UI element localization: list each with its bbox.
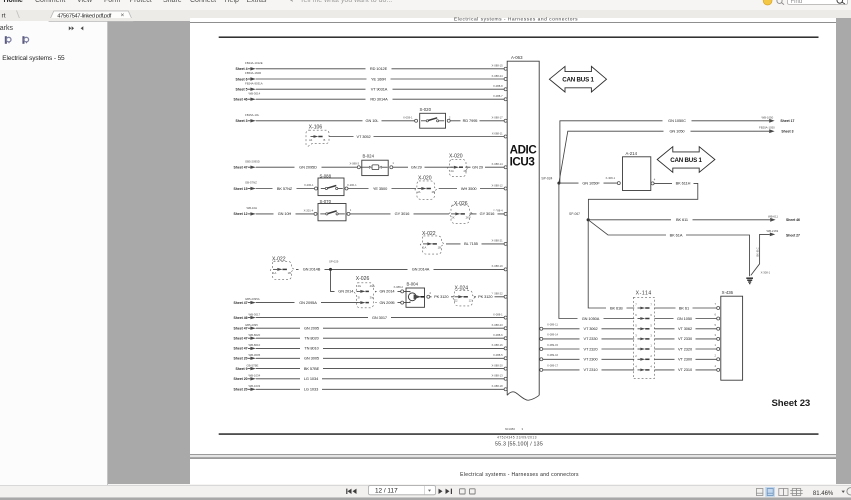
wire BK 61C to Sheet 27 bbox=[751, 229, 800, 275]
svg-text:RD 1012E: RD 1012E bbox=[370, 66, 388, 71]
svg-text:WB-3017: WB-3017 bbox=[249, 312, 261, 316]
svg-text:6: 6 bbox=[650, 313, 652, 317]
wire GN 3017 to X-088-1 bbox=[256, 314, 504, 320]
svg-text:Sheet 20: Sheet 20 bbox=[234, 388, 248, 392]
wire GN 2014B bbox=[296, 266, 330, 272]
rotate icons bbox=[460, 489, 476, 494]
wire GN 1050 to X-436 pin 6 bbox=[654, 315, 716, 321]
wire LG 1034 to X-088-13 bbox=[256, 376, 504, 382]
svg-text:3Ia: 3Ia bbox=[370, 295, 374, 299]
connector X-436 bbox=[715, 290, 743, 380]
svg-text:81.46%: 81.46% bbox=[813, 491, 834, 497]
svg-text:5: 5 bbox=[715, 323, 717, 327]
svg-text:Electrical systems - Harnesses: Electrical systems - Harnesses and conne… bbox=[454, 17, 578, 23]
svg-text:5: 5 bbox=[650, 323, 652, 327]
svg-text:5: 5 bbox=[635, 323, 637, 327]
svg-text:1: 1 bbox=[350, 208, 352, 212]
svg-text:4Ga: 4Ga bbox=[370, 284, 376, 288]
svg-text:GB-57BE: GB-57BE bbox=[247, 363, 259, 367]
svg-text:Sheet 15: Sheet 15 bbox=[234, 187, 248, 191]
svg-text:CAN BUS 1: CAN BUS 1 bbox=[562, 77, 594, 84]
svg-text:RD 3014A: RD 3014A bbox=[370, 97, 388, 102]
wire WH 3500 to X-088-12 bbox=[439, 185, 504, 191]
wire GN 2095A bbox=[256, 299, 358, 305]
wire BK 61A bbox=[588, 220, 749, 276]
svg-text:X-088-12: X-088-12 bbox=[492, 183, 504, 187]
svg-text:12 / 117: 12 / 117 bbox=[375, 488, 398, 495]
wire GY 3016 bbox=[350, 211, 449, 217]
svg-text:X-059-1: X-059-1 bbox=[403, 115, 413, 119]
svg-text:WB-8010: WB-8010 bbox=[249, 343, 261, 347]
svg-text:VT 2320: VT 2320 bbox=[583, 346, 598, 351]
wire VT 3052 to X-088-11 bbox=[329, 133, 504, 139]
svg-text:Sheet 27: Sheet 27 bbox=[786, 233, 800, 237]
svg-text:WH 3500: WH 3500 bbox=[461, 186, 478, 191]
wire PK 3120 bbox=[430, 294, 454, 300]
wire GY 3016 to X-088-4 bbox=[470, 211, 505, 217]
svg-text:4: 4 bbox=[650, 365, 652, 369]
svg-text:1B: 1B bbox=[438, 246, 441, 250]
svg-text:VT 3062: VT 3062 bbox=[678, 326, 692, 331]
svg-text:4G: 4G bbox=[358, 284, 362, 288]
svg-text:BK 61B: BK 61B bbox=[610, 305, 623, 310]
wire LG 1033 to X-088-18 bbox=[256, 386, 504, 392]
svg-text:Sheet 46: Sheet 46 bbox=[786, 218, 800, 222]
svg-text:WB-10H: WB-10H bbox=[247, 206, 258, 210]
wire VT 2330 to X-114 bbox=[543, 336, 634, 342]
wire BK 57NZ bbox=[256, 183, 314, 191]
sheet-in arrow Sheet 47 / GB5-2095 bbox=[234, 323, 259, 331]
svg-text:VT 2330: VT 2330 bbox=[678, 336, 693, 341]
layout icons bbox=[756, 489, 763, 496]
svg-text:X-088-3: X-088-3 bbox=[349, 162, 359, 166]
svg-text:A4: A4 bbox=[309, 138, 313, 142]
bookmarks panel bbox=[0, 18, 108, 485]
wire GN 2014 (left of X-026) bbox=[335, 288, 358, 294]
wire BK 611 to Sheet 46 bbox=[588, 214, 800, 222]
svg-text:1A: 1A bbox=[423, 246, 426, 250]
svg-text:GN 1050: GN 1050 bbox=[677, 316, 693, 321]
svg-text:X-088-19: X-088-19 bbox=[492, 264, 504, 268]
sheet-in arrow Sheet 47 / GB5-2095A bbox=[234, 297, 260, 305]
svg-text:3: 3 bbox=[522, 427, 524, 431]
wire BK 611H from A-214 down to SP-067 bbox=[588, 180, 697, 218]
svg-text:X-088-24: X-088-24 bbox=[492, 74, 504, 78]
wire VT 2330 to X-436 pin 3 bbox=[654, 336, 716, 342]
wire VT 2300 to X-114 bbox=[543, 356, 634, 362]
svg-text:4: 4 bbox=[429, 291, 431, 295]
svg-text:47524345 23/09/2013: 47524345 23/09/2013 bbox=[497, 436, 537, 440]
svg-text:X-088-13: X-088-13 bbox=[492, 374, 504, 378]
svg-text:GN 1050: GN 1050 bbox=[669, 129, 685, 134]
wire GN 2095D bbox=[256, 162, 360, 170]
svg-text:Sheet 20: Sheet 20 bbox=[234, 357, 248, 361]
svg-text:GN 29: GN 29 bbox=[411, 165, 422, 170]
svg-text:WB-8020: WB-8020 bbox=[249, 333, 261, 337]
svg-text:1: 1 bbox=[650, 344, 652, 348]
svg-text:Sheet 17: Sheet 17 bbox=[780, 119, 794, 123]
svg-text:PK 3120: PK 3120 bbox=[434, 294, 449, 299]
svg-text:WB-1050: WB-1050 bbox=[762, 115, 774, 119]
svg-text:VT 2330: VT 2330 bbox=[583, 336, 598, 341]
svg-text:S-020: S-020 bbox=[420, 107, 432, 112]
svg-text:X-026: X-026 bbox=[356, 276, 370, 282]
svg-text:Electrical systems - Harnesses: Electrical systems - Harnesses and conne… bbox=[460, 472, 579, 478]
svg-text:4: 4 bbox=[715, 364, 717, 368]
svg-text:X-436: X-436 bbox=[722, 290, 734, 295]
connector X-020 (GN 29) bbox=[448, 153, 486, 176]
connector X-106 bbox=[306, 125, 329, 147]
svg-text:GY 3016: GY 3016 bbox=[480, 211, 495, 216]
switch S-088 bbox=[315, 174, 358, 196]
svg-text:2: 2 bbox=[635, 354, 637, 358]
svg-text:X-089-16: X-089-16 bbox=[547, 353, 559, 357]
svg-text:3: 3 bbox=[650, 334, 652, 338]
connector X-114 bbox=[633, 291, 654, 379]
svg-text:2KV: 2KV bbox=[466, 216, 471, 220]
svg-text:X-089-14: X-089-14 bbox=[547, 333, 559, 337]
svg-text:B: B bbox=[324, 138, 326, 142]
svg-text:X-088-18: X-088-18 bbox=[492, 384, 504, 388]
svg-text:Sheet 20: Sheet 20 bbox=[234, 377, 248, 381]
svg-text:GN 2014: GN 2014 bbox=[338, 289, 354, 294]
svg-text:WB-3005: WB-3005 bbox=[249, 353, 261, 357]
active tab bbox=[49, 11, 133, 21]
svg-text:BK 611H: BK 611H bbox=[676, 181, 691, 186]
svg-text:2: 2 bbox=[449, 115, 451, 119]
svg-text:12: 12 bbox=[469, 298, 472, 302]
svg-text:Sheet 47: Sheet 47 bbox=[234, 327, 248, 331]
svg-text:X-022: X-022 bbox=[272, 257, 286, 263]
svg-text:GN 3005: GN 3005 bbox=[304, 356, 319, 361]
svg-text:SP-024: SP-024 bbox=[541, 177, 552, 181]
svg-text:X-022: X-022 bbox=[422, 231, 436, 237]
svg-text:Sheet 12: Sheet 12 bbox=[234, 212, 248, 216]
svg-text:B-024: B-024 bbox=[363, 154, 375, 159]
svg-text:Sheet 46: Sheet 46 bbox=[234, 98, 248, 102]
svg-text:SP-067: SP-067 bbox=[569, 212, 580, 216]
wire GN 10L bbox=[256, 115, 415, 123]
svg-text:7: 7 bbox=[635, 303, 637, 307]
svg-text:601080: 601080 bbox=[505, 427, 515, 431]
wire BK 61B (SP-067 down to X-114) bbox=[588, 220, 634, 311]
wire GN 1050F to A-214 bbox=[559, 176, 617, 186]
svg-text:TN 8010: TN 8010 bbox=[304, 346, 319, 351]
svg-text:BK 61C: BK 61C bbox=[755, 247, 759, 256]
X-088 pin labels bbox=[492, 64, 504, 389]
wire GN 2014 to B-004 pin 1 bbox=[376, 285, 404, 294]
svg-text:X-114: X-114 bbox=[636, 291, 652, 297]
svg-text:4: 4 bbox=[635, 365, 637, 369]
svg-text:X-089-11: X-089-11 bbox=[547, 323, 558, 327]
switch S-070 bbox=[314, 199, 352, 221]
svg-text:X-088-23: X-088-23 bbox=[492, 323, 504, 327]
svg-text:GN 1050F: GN 1050F bbox=[582, 180, 600, 185]
wire VT 2310 to X-436 pin 4 bbox=[654, 367, 716, 373]
svg-text:BK 57NZ: BK 57NZ bbox=[277, 186, 293, 191]
sheet-in arrow Sheet 20 / WB-1034 bbox=[234, 374, 261, 382]
svg-text:X-088-11: X-088-11 bbox=[492, 131, 503, 135]
svg-text:B-004: B-004 bbox=[407, 282, 419, 287]
wire TN 8020 to X-088-6 bbox=[256, 335, 504, 341]
svg-text:A-063: A-063 bbox=[511, 55, 523, 60]
svg-text:GN 1050C: GN 1050C bbox=[668, 118, 686, 123]
sheet-in arrow Sheet 4 / FB24A-1012E bbox=[235, 61, 262, 71]
svg-text:Sheet 47: Sheet 47 bbox=[234, 347, 248, 351]
sheet-in arrow Sheet 47 / GB5-2095D bbox=[234, 159, 260, 169]
svg-text:Electrical systems - 55: Electrical systems - 55 bbox=[2, 55, 65, 62]
svg-text:X-088-7: X-088-7 bbox=[493, 94, 503, 98]
top rule bbox=[219, 36, 819, 38]
svg-text:GB5-2095: GB5-2095 bbox=[245, 323, 258, 327]
svg-text:2A: 2A bbox=[451, 169, 454, 173]
wire GN 2014A to X-088-19 bbox=[332, 266, 504, 272]
svg-text:SP-029: SP-029 bbox=[329, 259, 339, 263]
svg-text:PK 3120: PK 3120 bbox=[478, 294, 493, 299]
wire VT 2320 to X-436 pin 1 bbox=[654, 346, 716, 352]
wire VT 2300 to X-436 pin 2 bbox=[654, 356, 716, 362]
bookmark panel icons bbox=[5, 36, 29, 44]
svg-text:2K: 2K bbox=[451, 216, 454, 220]
wire BL 7155 to X-088-21 bbox=[446, 241, 504, 247]
wire YE 3500 bbox=[348, 185, 416, 191]
svg-text:3: 3 bbox=[715, 333, 717, 337]
connector X-022 (GN 2014B) bbox=[270, 257, 294, 280]
svg-text:2A: 2A bbox=[417, 190, 420, 194]
svg-text:X-308-1: X-308-1 bbox=[606, 176, 616, 180]
svg-text:X-089-17: X-089-17 bbox=[547, 364, 559, 368]
svg-text:Sheet 46: Sheet 46 bbox=[234, 316, 248, 320]
svg-text:GN 2095D: GN 2095D bbox=[299, 165, 317, 170]
svg-text:2B: 2B bbox=[432, 190, 435, 194]
wire SP-029 drop to GN 2014 bbox=[331, 269, 337, 291]
splice SP-024 bbox=[541, 177, 560, 185]
svg-text:GN 3017: GN 3017 bbox=[372, 315, 387, 320]
svg-text:VT 2300: VT 2300 bbox=[678, 357, 693, 362]
svg-text:X-088-15: X-088-15 bbox=[492, 64, 504, 68]
svg-text:X-106: X-106 bbox=[309, 125, 323, 131]
component B-004 bbox=[401, 282, 432, 308]
sheet-in arrow Sheet 20 / WB-1033 bbox=[234, 384, 261, 392]
svg-text:3: 3 bbox=[635, 334, 637, 338]
svg-text:VT 9031A: VT 9031A bbox=[371, 87, 388, 92]
svg-text:GN 2014A: GN 2014A bbox=[412, 267, 430, 272]
svg-text:X-088-21: X-088-21 bbox=[492, 239, 504, 243]
bottom rule bbox=[219, 433, 819, 435]
svg-text:Sheet 23: Sheet 23 bbox=[772, 398, 811, 409]
svg-text:BK 57BE: BK 57BE bbox=[304, 366, 320, 371]
wire RD 1012E to X-088-15 bbox=[256, 66, 504, 72]
svg-text:GN 10L: GN 10L bbox=[366, 118, 380, 123]
svg-text:X-088-16: X-088-16 bbox=[492, 343, 504, 347]
svg-text:GN 2095: GN 2095 bbox=[304, 326, 319, 331]
component B-024 bbox=[357, 154, 394, 176]
svg-text:WB-2169: WB-2169 bbox=[767, 229, 779, 233]
page number box bbox=[369, 486, 436, 495]
find box bbox=[788, 0, 848, 4]
wire VT 3062 to X-436 pin 5 bbox=[654, 326, 716, 332]
wire GN 29 bbox=[393, 164, 504, 170]
svg-text:Bookmarks: Bookmarks bbox=[0, 25, 14, 32]
svg-text:X-308-1: X-308-1 bbox=[761, 270, 771, 274]
svg-text:55.3 [55.100] / 135: 55.3 [55.100] / 135 bbox=[495, 442, 543, 448]
svg-text:X-201-4: X-201-4 bbox=[304, 208, 314, 212]
svg-text:1B: 1B bbox=[288, 271, 291, 275]
svg-text:X-088-8: X-088-8 bbox=[493, 84, 503, 88]
page 11 tail bbox=[190, 18, 836, 21]
sheet-in arrow Sheet 5 / FB24A-9031A bbox=[235, 81, 262, 91]
X-088 pin circles (left edge of A-063) bbox=[504, 67, 507, 391]
svg-text:VT 3062: VT 3062 bbox=[583, 326, 597, 331]
svg-text:GN 2014: GN 2014 bbox=[379, 289, 395, 294]
status bar bbox=[0, 485, 851, 498]
svg-text:X-200-1: X-200-1 bbox=[304, 183, 314, 187]
svg-text:X-088-6: X-088-6 bbox=[493, 333, 503, 337]
converter A-214 bbox=[617, 151, 656, 190]
svg-text:GN 2014B: GN 2014B bbox=[303, 267, 321, 272]
svg-text:1: 1 bbox=[635, 344, 637, 348]
tab strip bbox=[0, 10, 851, 18]
svg-text:A-214: A-214 bbox=[626, 151, 638, 156]
svg-text:BK 61: BK 61 bbox=[679, 305, 689, 310]
toolbar magnifier icon bbox=[777, 0, 784, 5]
wire BK 61 to X-436 pin 7 bbox=[654, 305, 716, 311]
wire VT 2320 to X-114 bbox=[543, 346, 634, 352]
wire GN 2095 to B-004 pin 2 bbox=[376, 299, 401, 305]
svg-text:GN 10H: GN 10H bbox=[278, 211, 292, 216]
svg-text:FB15A-10L: FB15A-10L bbox=[245, 113, 260, 117]
splice SP-029 bbox=[329, 259, 339, 271]
search help yellow badge bbox=[763, 0, 772, 5]
svg-text:7: 7 bbox=[715, 302, 717, 306]
svg-text:GB5-2095A: GB5-2095A bbox=[245, 297, 260, 301]
svg-text:WB-1034: WB-1034 bbox=[249, 374, 261, 378]
splice SP-067 bbox=[569, 212, 590, 222]
wire GN 1050A (SP-024 down to X-114) bbox=[559, 183, 634, 321]
svg-text:LG 1033: LG 1033 bbox=[304, 387, 318, 392]
svg-text:2: 2 bbox=[715, 354, 717, 358]
sheet-in arrow Sheet 9 / GB-57BE bbox=[235, 363, 258, 371]
svg-text:WB-611: WB-611 bbox=[768, 214, 778, 218]
svg-text:TN 8020: TN 8020 bbox=[304, 336, 319, 341]
wire GN 1050 to Sheet 3 bbox=[559, 126, 794, 184]
svg-text:X-088-2: X-088-2 bbox=[393, 285, 403, 289]
svg-text:VT 2310: VT 2310 bbox=[583, 367, 598, 372]
svg-text:1: 1 bbox=[392, 161, 394, 165]
svg-text:1: 1 bbox=[715, 343, 717, 347]
svg-text:Sheet 47: Sheet 47 bbox=[234, 166, 248, 170]
svg-text:GN 2095A: GN 2095A bbox=[299, 300, 317, 305]
menu bar bbox=[0, 0, 851, 10]
svg-text:E2: E2 bbox=[454, 298, 458, 302]
status bar: nav buttons bbox=[346, 489, 452, 494]
svg-text:X-088-20: X-088-20 bbox=[492, 363, 504, 367]
svg-text:BK 611: BK 611 bbox=[676, 217, 688, 222]
svg-text:YE 3500: YE 3500 bbox=[373, 186, 388, 191]
svg-text:6: 6 bbox=[635, 313, 637, 317]
svg-text:VT 2310: VT 2310 bbox=[678, 367, 693, 372]
svg-text:GY 3016: GY 3016 bbox=[395, 211, 410, 216]
svg-text:BL 7155: BL 7155 bbox=[464, 241, 478, 246]
wire RD 3014A to X-088-7 bbox=[256, 96, 504, 102]
wire RD 7995 to X-088-17 bbox=[450, 118, 504, 124]
sheet-in arrow Sheet 46 / WB-3017 bbox=[234, 312, 261, 320]
wire VT 9031A to X-088-8 bbox=[256, 86, 504, 92]
wire BK 57BE to X-088-20 bbox=[256, 365, 504, 371]
svg-text:GN 29: GN 29 bbox=[472, 165, 483, 170]
sheet-in arrow Sheet 15 / GB-57NZ bbox=[234, 181, 258, 191]
X-089 pin labels bbox=[547, 323, 559, 368]
svg-text:LG 1034: LG 1034 bbox=[304, 376, 319, 381]
svg-text:VT 3052: VT 3052 bbox=[356, 134, 370, 139]
svg-text:ICU3: ICU3 bbox=[510, 155, 536, 168]
wire YE 160R to X-088-24 bbox=[256, 76, 504, 82]
svg-text:GB5-2095D: GB5-2095D bbox=[245, 159, 260, 163]
wire TN 8010 to X-088-16 bbox=[256, 345, 504, 351]
svg-text:VT 2300: VT 2300 bbox=[583, 357, 598, 362]
svg-text:X-088-5: X-088-5 bbox=[493, 353, 503, 357]
svg-text:X-088-17: X-088-17 bbox=[492, 116, 504, 120]
X-089 pin circles (right edge of A-063) bbox=[540, 327, 543, 371]
svg-text:GN 1050A: GN 1050A bbox=[582, 316, 600, 321]
connector X-022 (BL 7155) bbox=[420, 231, 444, 254]
svg-text:X-020: X-020 bbox=[449, 153, 463, 159]
connector X-024 (PK 3120) bbox=[452, 285, 475, 306]
svg-text:4: 4 bbox=[654, 178, 656, 182]
sheet-in arrow Sheet 47 / WB-8010 bbox=[234, 343, 261, 351]
svg-text:GB-57NZ: GB-57NZ bbox=[245, 181, 257, 185]
svg-text:RD 7995: RD 7995 bbox=[463, 118, 478, 123]
connector X-026 (GN 2014 / GN 2095) bbox=[354, 276, 376, 308]
svg-text:Sheet 3: Sheet 3 bbox=[235, 119, 247, 123]
svg-text:WB-1033: WB-1033 bbox=[249, 384, 261, 388]
switch S-020 bbox=[415, 107, 451, 128]
svg-text:BK 61A: BK 61A bbox=[670, 232, 683, 237]
svg-text:X-088-14: X-088-14 bbox=[492, 162, 504, 166]
svg-text:6: 6 bbox=[715, 313, 717, 317]
svg-text:Sheet 9: Sheet 9 bbox=[235, 367, 247, 371]
CAN BUS 1 symbol (top) bbox=[549, 66, 606, 92]
page 12 bbox=[190, 23, 836, 454]
sheet-in arrow Sheet 3 / FB15A-10L bbox=[235, 113, 259, 123]
wire PK 3120 to X-088-22 bbox=[474, 294, 504, 300]
svg-text:Find: Find bbox=[791, 0, 803, 5]
sheet-in arrow Sheet 20 / WB-3005 bbox=[234, 353, 261, 361]
svg-text:2B: 2B bbox=[464, 169, 467, 173]
wire GN 3005 to X-088-5 bbox=[256, 355, 504, 361]
wire GN 2095 to X-088-23 bbox=[256, 325, 504, 331]
wire VT 3062 to X-114 bbox=[543, 326, 634, 332]
sheet-in arrow Sheet 12 / WB-10H bbox=[234, 206, 258, 216]
svg-text:Sheet 47: Sheet 47 bbox=[234, 337, 248, 341]
connector X-026 (GY 3016) bbox=[449, 201, 472, 223]
svg-text:GN 2095: GN 2095 bbox=[379, 300, 394, 305]
wire GN 10H bbox=[256, 208, 314, 216]
sheet-in arrow Sheet 6 / FB53A-160R bbox=[235, 71, 261, 81]
svg-text:1A: 1A bbox=[273, 271, 276, 275]
svg-text:FB53A-160R: FB53A-160R bbox=[245, 71, 261, 75]
svg-text:Sheet 3: Sheet 3 bbox=[781, 130, 793, 134]
svg-text:2: 2 bbox=[650, 354, 652, 358]
connector X-020 (YE 3500 / WH 3500) bbox=[415, 176, 437, 200]
sheet-in arrow Sheet 46 / WB-3014 bbox=[234, 91, 261, 101]
svg-text:X-026: X-026 bbox=[454, 201, 468, 207]
wire GN 1050C to Sheet 17 bbox=[560, 115, 795, 183]
svg-text:YE 160R: YE 160R bbox=[371, 76, 386, 81]
CAN BUS 1 symbol (middle) bbox=[657, 147, 715, 173]
svg-text:3I: 3I bbox=[358, 295, 360, 299]
svg-text:7: 7 bbox=[650, 303, 652, 307]
